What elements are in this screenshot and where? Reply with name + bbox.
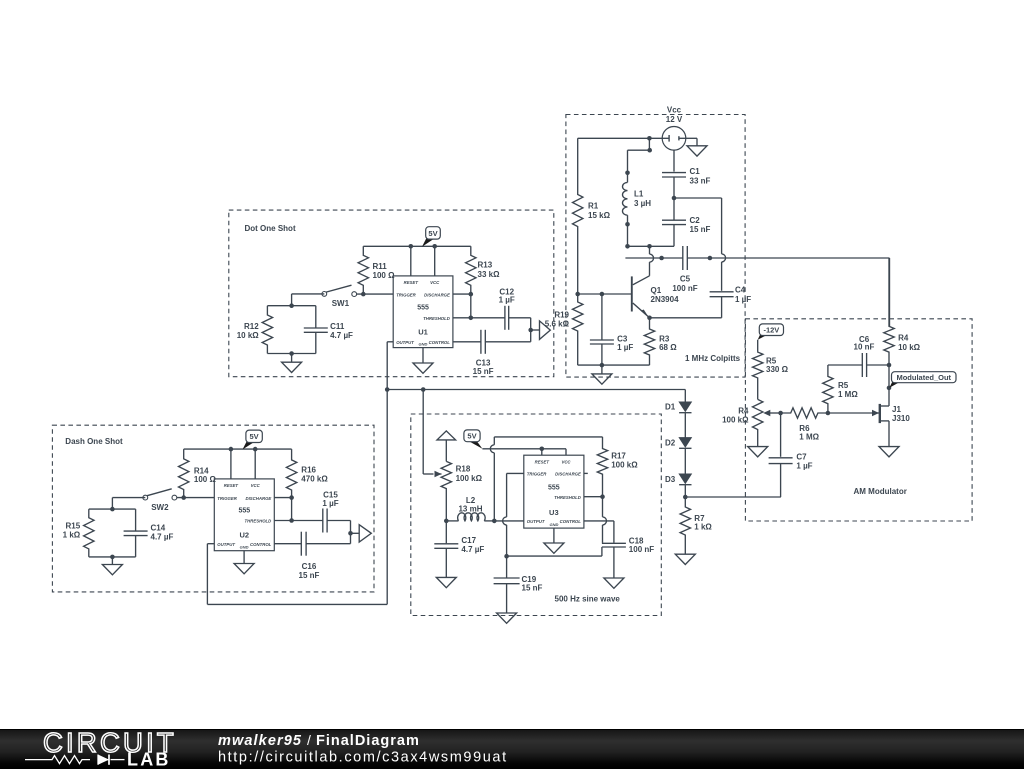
svg-text:FinalDiagram: FinalDiagram — [316, 733, 420, 749]
svg-text:mwalker95: mwalker95 — [218, 733, 302, 749]
svg-text:/: / — [307, 732, 311, 748]
svg-text:http://circuitlab.com/c3ax4wsm: http://circuitlab.com/c3ax4wsm99uat — [218, 750, 508, 766]
svg-text:LAB: LAB — [127, 750, 171, 769]
